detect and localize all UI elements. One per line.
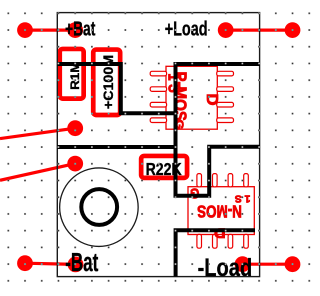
wire red trace +Bat [25,29,75,32]
wire red diagonal trace lower [0,164,75,181]
pad P8 -Bat [68,257,84,273]
wire red trace +Load [226,29,293,32]
board outline [57,13,259,277]
wire red trace -Load [243,263,293,266]
mounting hole outer ring [60,168,138,247]
capacitor C100M outline [93,50,120,115]
wire black gate net [57,145,175,149]
transistor N-MOS body [188,187,254,235]
wire black source net [176,230,255,276]
pad P6 [67,156,83,172]
resistor R1M outline [60,49,84,99]
pad P7 [17,255,33,271]
pad P3 +Load [218,22,234,38]
wire black +Load net [176,64,261,196]
pad P2 +Bat [67,22,83,38]
wire red trace -Bat [25,263,76,264]
N-MOS pins top [197,174,248,187]
pad P10 [285,256,301,272]
P-MOS pins left [150,71,166,122]
wire black +Bat net [57,64,175,113]
transistor P-MOS body [166,66,217,129]
P-MOS pins right [217,71,234,122]
pad P1 [17,22,33,38]
pad P5 [67,120,83,136]
pad P4 [285,22,301,38]
mounting hole inner ring [81,189,117,225]
wire red diagonal trace upper [0,128,75,138]
resistor R22K outline [141,156,187,178]
N-MOS pins bottom [197,234,248,248]
pad P9 -Load [235,256,251,272]
